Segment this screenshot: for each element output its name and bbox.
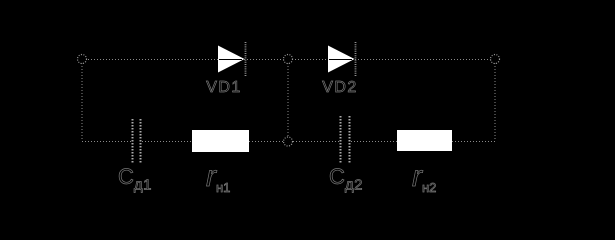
svg-text:VD2: VD2	[322, 79, 358, 96]
svg-text:VD1: VD1	[206, 79, 242, 96]
